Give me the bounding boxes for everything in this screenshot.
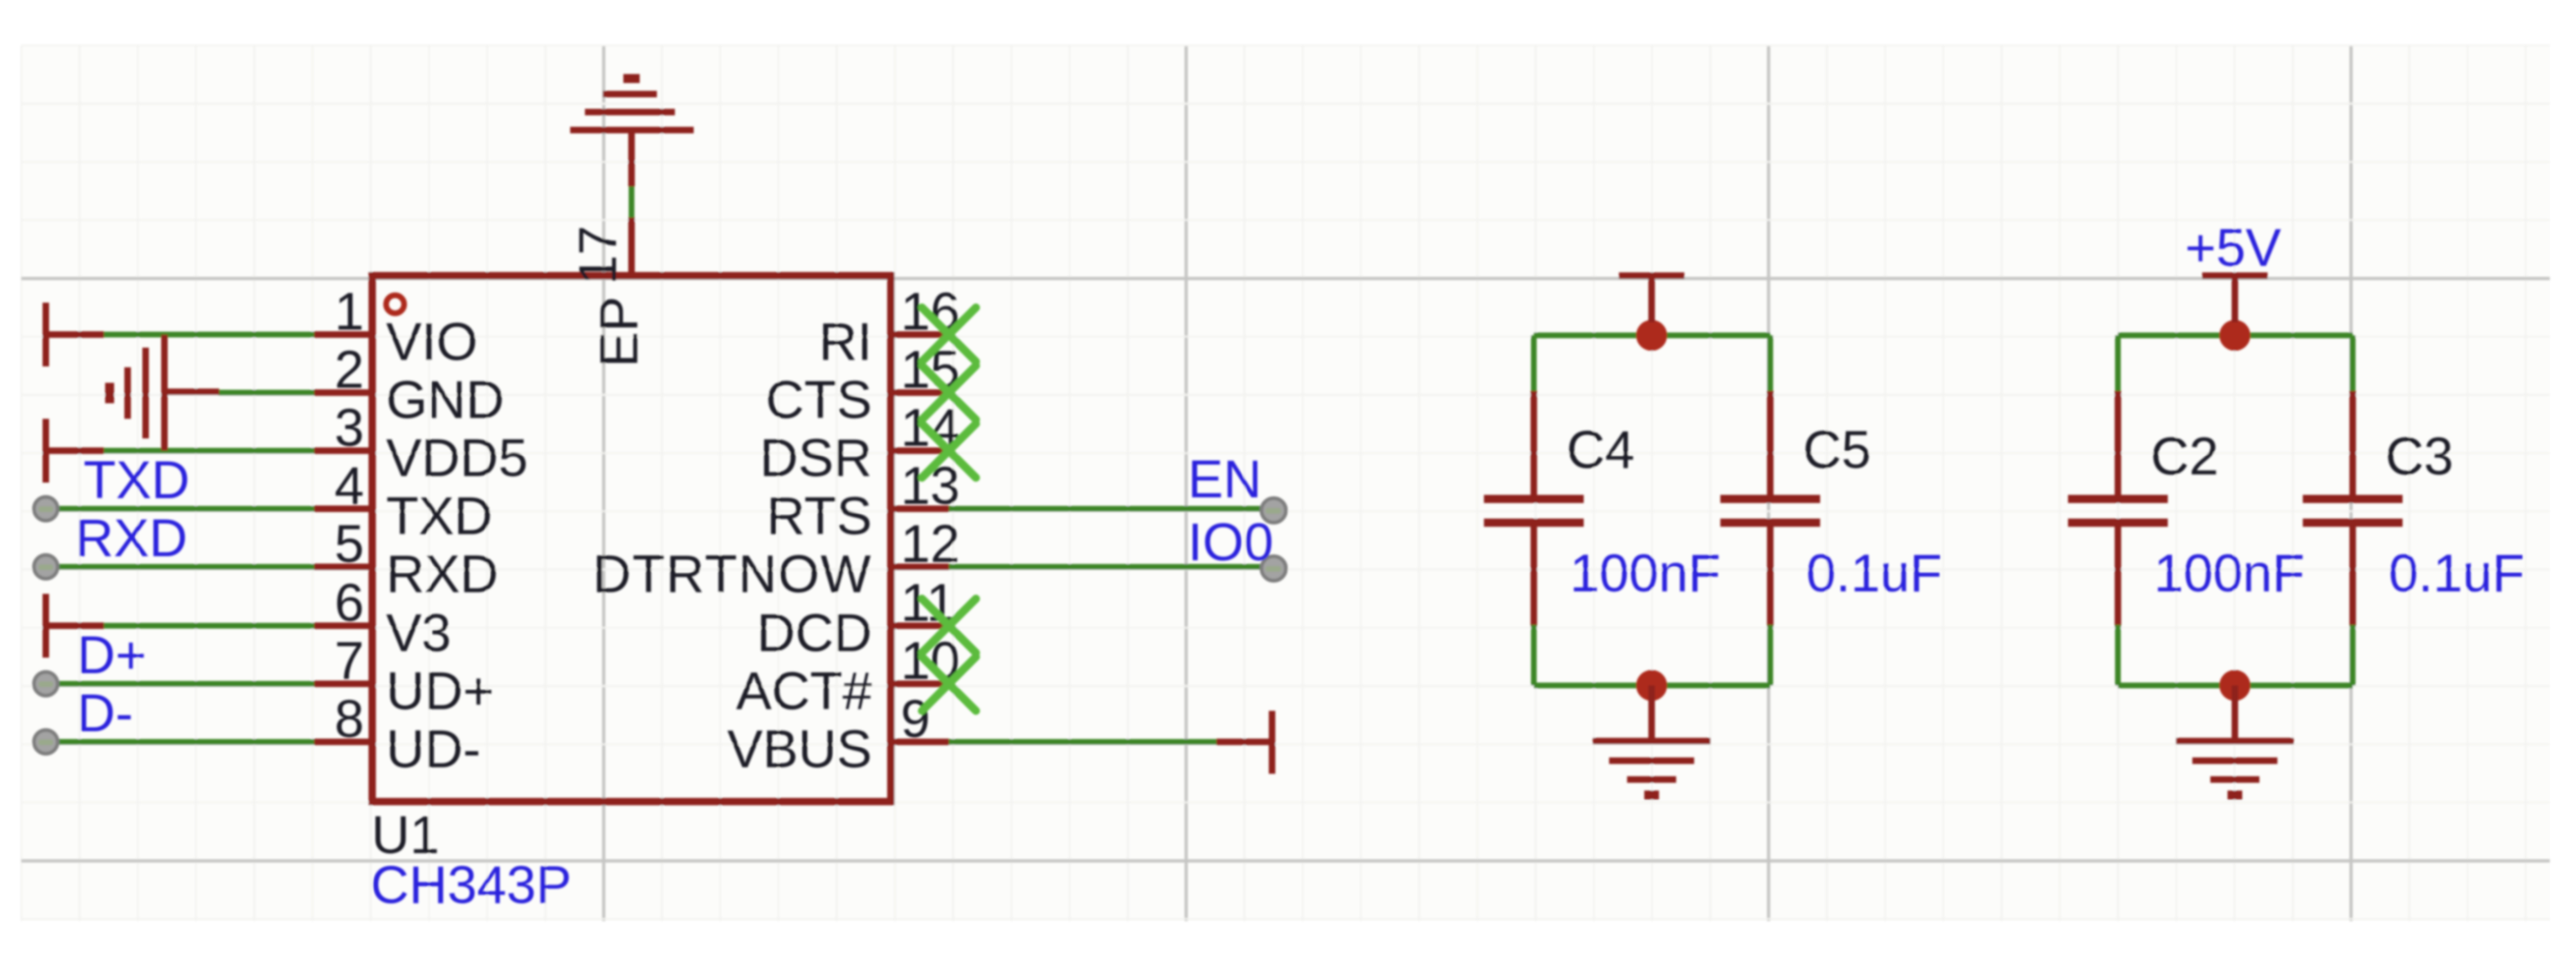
svg-text:2: 2 <box>335 339 364 399</box>
pin 16 RI <box>819 281 960 371</box>
pin 10 ACT# <box>736 631 960 721</box>
wire bottom rail <box>2118 683 2353 689</box>
ground (left, on GND pin) <box>110 335 219 451</box>
svg-text:CH343P: CH343P <box>371 855 572 914</box>
pin 3 VDD5 <box>314 398 528 487</box>
svg-text:GND: GND <box>386 370 504 429</box>
junction (bottom) <box>2219 670 2250 701</box>
pin 13 RTS <box>767 456 960 546</box>
svg-text:17: 17 <box>568 226 627 285</box>
svg-text:C3: C3 <box>2385 426 2453 486</box>
svg-text:EP: EP <box>589 296 649 367</box>
ground (below capacitors) <box>1593 685 1711 795</box>
pin 11 DCD <box>757 573 955 663</box>
svg-text:6: 6 <box>335 573 364 632</box>
svg-text:VDD5: VDD5 <box>386 428 528 487</box>
wire bottom rail <box>1534 683 1770 689</box>
power bar above (stem) <box>2202 276 2268 322</box>
pin 5 RXD <box>314 514 498 604</box>
svg-text:RTS: RTS <box>767 486 872 546</box>
svg-text:RI: RI <box>819 312 872 371</box>
wire EP to ground <box>629 186 635 218</box>
svg-text:C5: C5 <box>1803 420 1871 479</box>
svg-text:RXD: RXD <box>75 508 187 568</box>
net port EN <box>1261 498 1286 523</box>
no-connect flag <box>922 366 976 420</box>
IC U1 CH343P body <box>372 276 891 802</box>
wire EN (RTS pin 13) <box>949 506 1261 512</box>
power bar net port (VDD5) <box>46 419 104 483</box>
capacitor C2 <box>2068 335 2168 685</box>
junction (bottom) <box>1636 670 1667 701</box>
capacitor C4 <box>1484 335 1584 685</box>
pin 8 UD- <box>314 689 481 779</box>
wire pin 3 <box>104 448 314 454</box>
net port D+ <box>34 672 58 696</box>
net port TXD <box>34 497 58 521</box>
wire pin 1 <box>104 332 314 338</box>
power bar net port (VIO) <box>46 303 104 366</box>
svg-text:CTS: CTS <box>766 370 872 429</box>
svg-text:100nF: 100nF <box>1570 543 1720 603</box>
svg-text:D+: D+ <box>77 625 146 685</box>
power bar net port (VBUS) <box>1216 711 1272 774</box>
wire top rail <box>1534 333 1770 339</box>
svg-text:7: 7 <box>335 631 364 690</box>
svg-text:C2: C2 <box>2151 426 2219 486</box>
net port IO0 <box>1261 556 1286 581</box>
svg-text:5: 5 <box>335 514 364 573</box>
svg-text:3: 3 <box>335 398 364 457</box>
pin 17 EP (top) <box>568 218 649 367</box>
junction (top) <box>2219 320 2250 351</box>
power bar net port (V3) <box>46 594 104 658</box>
pin 6 V3 <box>314 573 452 663</box>
svg-text:100nF: 100nF <box>2154 543 2304 603</box>
svg-text:4: 4 <box>335 456 364 515</box>
pin 1 VIO <box>314 281 478 371</box>
pin 4 TXD <box>314 456 492 546</box>
svg-text:EN: EN <box>1188 449 1261 509</box>
pin 14 DSR <box>760 398 960 487</box>
svg-text:0.1uF: 0.1uF <box>1806 543 1942 603</box>
svg-text:RXD: RXD <box>386 544 498 604</box>
net port D- <box>34 730 58 754</box>
ground (below capacitors) <box>2176 685 2294 795</box>
no-connect flag <box>922 308 976 362</box>
power bar above (stem) <box>1619 276 1684 322</box>
svg-text:C4: C4 <box>1567 420 1634 479</box>
svg-text:UD+: UD+ <box>386 661 494 721</box>
svg-text:VIO: VIO <box>386 312 478 371</box>
svg-text:V3: V3 <box>386 603 452 663</box>
svg-text:IO0: IO0 <box>1188 512 1274 572</box>
no-connect flag <box>922 424 976 478</box>
wire pin (D-) <box>56 739 314 745</box>
pin 9 VBUS <box>727 689 949 779</box>
no-connect flag <box>922 657 976 711</box>
wire pin (RXD) <box>56 564 314 570</box>
pin 2 GND <box>314 339 504 429</box>
svg-text:VBUS: VBUS <box>727 719 872 779</box>
junction (top) <box>1636 320 1667 351</box>
pin 15 CTS <box>766 339 960 429</box>
wire pin 6 <box>104 623 314 629</box>
capacitor C5 <box>1720 335 1820 685</box>
svg-text:TXD: TXD <box>83 450 190 510</box>
pin 1 indicator dot <box>386 295 404 313</box>
wire pin (TXD) <box>56 506 314 512</box>
svg-text:D-: D- <box>77 683 133 743</box>
no-connect flag <box>922 599 976 653</box>
pin 12 DTRTNOW <box>593 514 960 604</box>
wire IO0 (DTRTNOW pin 12) <box>949 564 1261 570</box>
svg-text:1: 1 <box>335 281 364 341</box>
wire VBUS (pin 9) <box>949 739 1218 745</box>
net port RXD <box>34 555 58 579</box>
svg-text:UD-: UD- <box>386 719 481 779</box>
pin 7 UD+ <box>314 631 494 721</box>
wire top rail <box>2118 333 2353 339</box>
svg-text:8: 8 <box>335 689 364 748</box>
capacitor C3 <box>2303 335 2403 685</box>
svg-text:ACT#: ACT# <box>736 661 872 721</box>
svg-text:DSR: DSR <box>760 428 872 487</box>
svg-text:+5V: +5V <box>2185 218 2282 277</box>
svg-text:9: 9 <box>901 689 930 748</box>
svg-text:DCD: DCD <box>757 603 872 663</box>
svg-text:TXD: TXD <box>386 486 492 546</box>
wire pin (D+) <box>56 681 314 687</box>
wire pin 2 (GND) <box>218 390 314 396</box>
svg-text:0.1uF: 0.1uF <box>2389 543 2524 603</box>
ground (above EP) <box>570 79 694 186</box>
svg-text:DTRTNOW: DTRTNOW <box>593 544 872 604</box>
